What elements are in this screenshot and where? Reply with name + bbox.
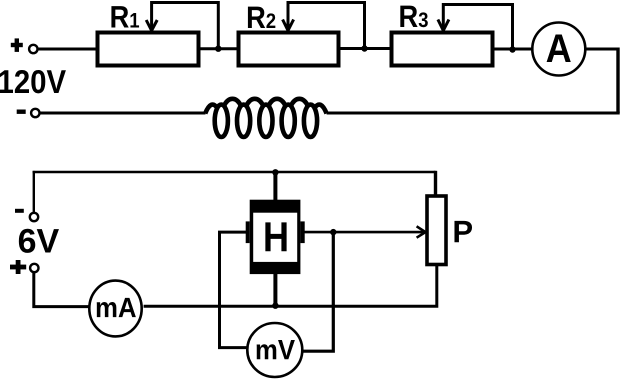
label + (6V positive) [10,260,26,274]
wire ammeter to right corner [585,48,618,51]
label - (120V negative) [17,110,26,114]
wire down to P top [434,171,437,195]
terminal + 6V [30,264,38,272]
terminal + 120V [29,45,37,53]
wire H left tab to left vertical [220,232,249,348]
wire right vertical [616,48,619,114]
resistor R3 [392,33,493,66]
wire R1 to R2 [199,47,238,50]
terminal - 120V [31,109,39,117]
wiper arrow R2 [283,3,365,49]
hall probe H [246,200,305,274]
wire R3 to ammeter [492,48,532,51]
wiper arrow R3 [438,5,513,50]
wire bottom right to coil [327,112,620,115]
node junction mV-arrow [330,229,336,235]
wire coil to minus terminal [40,112,206,115]
wire mA to P bottom corner [144,265,437,306]
label 120V [0,70,66,93]
label R3 [400,6,427,28]
label P [454,221,472,242]
wiper arrow R1 [146,3,218,49]
terminal - 6V [30,213,38,221]
wire top of 6V loop [33,171,436,173]
wire minus terminal up [33,171,35,213]
label + (120V positive) [11,38,23,52]
label - (6V negative) [15,209,24,213]
millivoltmeter mV [247,323,302,377]
resistor R2 [239,33,339,66]
label R1 [111,6,139,27]
inductor coil [205,99,326,137]
milliammeter mA [89,281,141,337]
potentiometer P [427,196,446,265]
node junction R1-R2 [215,46,221,52]
wire plus terminal down [34,272,90,306]
wire H bottom pin [273,274,277,306]
node junction below H [272,303,278,309]
node junction R3-A [509,46,515,52]
ammeter A [532,23,585,76]
label R2 [248,7,275,28]
resistor R1 [98,33,199,66]
wire H right tab to P with wiper arrow [303,226,426,237]
node junction R2-R3 [361,45,367,51]
wire plus terminal to R1 [38,48,97,51]
wire R2 to R3 [339,47,391,50]
label 6V [19,229,59,253]
wire H top pin [273,172,277,201]
node junction above H [272,169,278,175]
wire mV right to vertical up [302,232,333,351]
